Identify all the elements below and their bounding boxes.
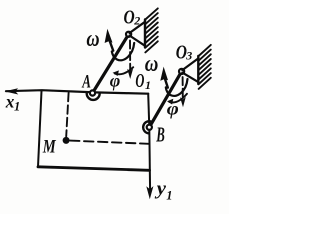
svg-text:2: 2 (133, 14, 140, 28)
svg-text:1: 1 (14, 100, 20, 114)
svg-text:φ: φ (167, 99, 179, 119)
svg-text:φ: φ (110, 71, 121, 91)
svg-text:O: O (135, 70, 144, 92)
svg-text:3: 3 (185, 49, 192, 63)
svg-text:O: O (124, 7, 135, 29)
svg-text:1: 1 (166, 188, 172, 202)
svg-text:A: A (82, 71, 91, 92)
svg-text:y: y (155, 179, 167, 200)
svg-text:ω: ω (145, 51, 159, 76)
svg-text:B: B (156, 122, 165, 146)
svg-text:1: 1 (145, 78, 151, 92)
svg-text:ω: ω (86, 26, 99, 51)
svg-text:x: x (5, 92, 15, 112)
svg-text:M: M (42, 137, 57, 158)
